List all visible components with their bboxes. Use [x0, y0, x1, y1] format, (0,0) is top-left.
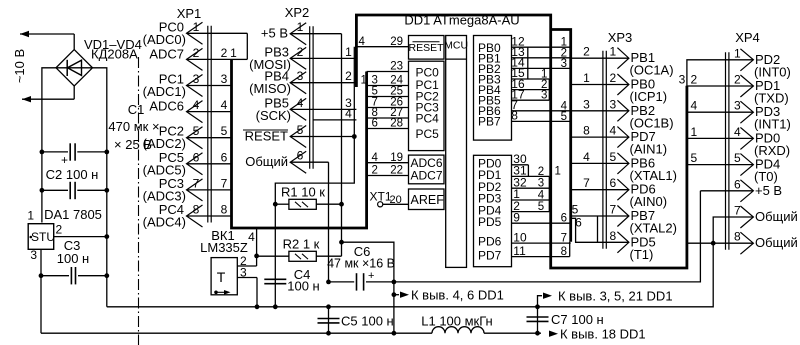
connector XP2 body — [310, 26, 313, 169]
connector XP1 pin 7 (PC3) — [143, 176, 232, 204]
DD1 PC3 pin 26 wire — [367, 97, 409, 109]
wire bus to XP4 pin 4 — [687, 125, 754, 139]
svg-text:1: 1 — [345, 45, 352, 59]
ground bus wire — [107, 243, 713, 307]
svg-text:3: 3 — [561, 58, 567, 70]
connector XP3 pin 8 (PD5) — [610, 229, 656, 262]
connector XP2 pin 4 (PB5) — [256, 95, 307, 123]
DD1 PD0 pin 30 wire — [512, 152, 529, 166]
DD1 PB4 pin 16 wire — [511, 77, 549, 91]
wire +5V down from R1 — [342, 204, 394, 333]
junction R2 left — [254, 254, 259, 259]
AC input arrow top — [20, 31, 74, 50]
svg-text:1: 1 — [297, 20, 304, 34]
junction C3 left — [39, 273, 44, 278]
wire right rail from bridge — [93, 68, 107, 307]
svg-text:47 мк ×16 В: 47 мк ×16 В — [327, 257, 395, 271]
svg-text:+: + — [61, 153, 68, 167]
wire bus to XP3 pin 1 — [571, 45, 629, 59]
svg-text:Общий: Общий — [245, 154, 288, 169]
svg-text:5: 5 — [193, 124, 200, 138]
wire XP2 reset jog — [313, 119, 356, 121]
connector XP1 pin 4 (ADC6) — [149, 98, 231, 123]
wire gnd to XP4 pin 7 — [713, 217, 753, 243]
capacitor C7 — [527, 307, 604, 333]
junction DA1 pin2 rail — [104, 234, 109, 239]
connector XP4 pin 1 (PD2) — [734, 46, 791, 79]
capacitor C6 — [327, 244, 395, 291]
resistor R2 — [257, 237, 342, 262]
svg-text:1: 1 — [193, 20, 200, 34]
svg-text:6: 6 — [221, 150, 228, 164]
DD1 PC1 pin 24 wire — [367, 75, 409, 87]
svg-text:2: 2 — [610, 71, 617, 85]
junction XP4 gnd — [711, 241, 716, 246]
svg-text:29: 29 — [390, 36, 403, 48]
svg-text:LM335Z: LM335Z — [200, 240, 248, 255]
svg-text:R1 10 к: R1 10 к — [281, 185, 325, 200]
svg-text:Т: Т — [217, 269, 226, 285]
svg-text:4: 4 — [193, 98, 200, 112]
DD1 PD1 pin 31 wire — [512, 164, 550, 178]
connector XP3 pin 3 (PB2) — [610, 97, 674, 130]
svg-text:4: 4 — [610, 124, 617, 138]
DD1 PD5 pin 9 wire — [512, 210, 571, 224]
wire bus to XP4 pin 1 — [687, 60, 754, 86]
DD1 PD3 pin 1 wire — [512, 187, 550, 201]
svg-text:С2 100 н: С2 100 н — [46, 167, 99, 182]
svg-text:3: 3 — [221, 72, 228, 86]
svg-text:3: 3 — [541, 90, 547, 102]
svg-text:DD1 ATmega8A-AU: DD1 ATmega8A-AU — [404, 13, 519, 28]
svg-text:~10 В: ~10 В — [12, 49, 27, 83]
svg-text:4: 4 — [691, 99, 698, 113]
svg-text:23: 23 — [390, 61, 403, 73]
junction R1 right — [339, 202, 344, 207]
svg-text:5: 5 — [572, 203, 579, 217]
DD1 PB7 pin 8 wire — [511, 109, 570, 123]
svg-text:20: 20 — [390, 194, 402, 206]
svg-text:PD6: PD6 — [478, 235, 502, 249]
svg-text:5: 5 — [538, 201, 544, 213]
resistor R1 — [275, 185, 341, 210]
capacitor C5 — [318, 307, 394, 333]
svg-text:7: 7 — [221, 176, 228, 190]
svg-text:2: 2 — [691, 73, 698, 87]
svg-text:19: 19 — [390, 152, 403, 164]
connector XP1 pin 3 (PC1) — [143, 72, 232, 100]
wire numbers PB6-PB7 — [561, 100, 568, 123]
junction +5V R2 tap — [339, 240, 344, 245]
connector XP1 pin 8 (PC4) — [143, 202, 232, 230]
svg-text:XT1: XT1 — [370, 190, 392, 204]
DD1 port B cell — [474, 36, 512, 141]
junction +5V supply tap — [392, 292, 397, 297]
svg-text:STU: STU — [31, 230, 55, 244]
connector XP3 pin 6 (PD6) — [610, 176, 668, 209]
test point XT1 — [370, 190, 409, 207]
svg-text:L1 100 мкГн: L1 100 мкГн — [421, 314, 493, 329]
svg-text:8: 8 — [583, 124, 590, 138]
svg-text:(T1): (T1) — [630, 247, 654, 262]
svg-text:5: 5 — [691, 151, 698, 165]
svg-text:(MISO): (MISO) — [249, 81, 291, 96]
svg-text:+: + — [368, 270, 374, 282]
wire bus to XP3 pin 5 — [571, 150, 629, 164]
wire bus to XP4 pin 5 — [687, 151, 754, 165]
svg-text:9: 9 — [513, 210, 520, 224]
DD1 PB6 pin 7 wire — [511, 98, 570, 112]
svg-text:1: 1 — [610, 45, 617, 59]
svg-text:4: 4 — [734, 125, 741, 139]
ground label К выв. 3, 5, 21 DD1 — [538, 289, 673, 307]
svg-text:ADC6: ADC6 — [149, 99, 184, 114]
svg-text:XP4: XP4 — [735, 30, 760, 45]
DD1 PB1 pin 13 wire — [511, 45, 570, 59]
group bus from XP1 to DD1 port C — [232, 59, 367, 228]
junction gnd tap — [535, 304, 540, 309]
svg-text:3: 3 — [297, 69, 304, 83]
svg-text:ADC7: ADC7 — [149, 46, 184, 61]
label К выв. 18 DD1 — [549, 327, 646, 342]
svg-text:6: 6 — [372, 118, 378, 130]
connector XP1 pin 2 (ADC7) — [149, 46, 231, 71]
capacitor C3 — [41, 238, 107, 284]
svg-text:3: 3 — [193, 72, 200, 86]
wire RESET net — [275, 47, 354, 205]
junction C6 right — [392, 280, 397, 285]
connector XP4 body — [726, 52, 729, 249]
wire XP2 pin3 MISO — [290, 82, 356, 84]
wire numbers PB0-PB2 — [561, 37, 567, 70]
svg-text:XP3: XP3 — [608, 30, 633, 45]
junction bottom C5 — [326, 331, 331, 336]
svg-text:6: 6 — [610, 176, 617, 190]
wire bus to XP3 pin 7 — [571, 203, 629, 217]
svg-text:1: 1 — [691, 125, 698, 139]
svg-text:XP2: XP2 — [285, 5, 310, 20]
DD1 RESET cell — [408, 36, 444, 60]
svg-text:4: 4 — [583, 150, 590, 164]
junction C6 left — [326, 280, 331, 285]
junction C1 left — [40, 150, 45, 155]
svg-text:5: 5 — [297, 123, 304, 137]
svg-text:10: 10 — [513, 230, 527, 244]
svg-text:К выв. 18 DD1: К выв. 18 DD1 — [560, 327, 646, 342]
svg-text:4: 4 — [297, 96, 304, 110]
svg-text:6: 6 — [575, 216, 582, 230]
svg-text:7: 7 — [583, 176, 590, 190]
svg-text:1: 1 — [27, 209, 34, 223]
svg-text:5: 5 — [610, 150, 617, 164]
DD1 PD6 pin 10 wire — [512, 230, 571, 244]
svg-text:2: 2 — [372, 165, 378, 177]
wire numbers XP2 to bus — [345, 45, 352, 121]
junction BK1 gnd — [255, 304, 260, 309]
connector XP3 pin 7 (PB7) — [610, 203, 677, 236]
svg-text:470 мк ×: 470 мк × — [108, 119, 159, 134]
svg-text:8: 8 — [561, 246, 567, 258]
svg-text:8: 8 — [734, 230, 741, 244]
svg-text:2: 2 — [345, 69, 352, 83]
junction R1 left — [273, 202, 278, 207]
svg-text:PC4: PC4 — [416, 112, 440, 126]
svg-text:4: 4 — [359, 36, 366, 48]
junction RESET XP2 — [352, 134, 357, 139]
svg-text:Общий: Общий — [755, 235, 798, 250]
wire bus to XP4 pin 2 — [687, 73, 754, 87]
svg-text:1: 1 — [583, 71, 590, 85]
connector XP4 pin 4 (PD0) — [734, 125, 790, 158]
DD1 ADC7 pin 22 wire — [367, 165, 409, 177]
svg-text:+5 В: +5 В — [261, 26, 288, 41]
svg-text:28: 28 — [390, 118, 403, 130]
connector XP4 pin 8 (Общий) — [734, 230, 798, 255]
svg-text:6: 6 — [193, 150, 200, 164]
connector XP4 pin 6 (+5 В) — [734, 177, 782, 202]
wire bus to XP3 pin 2 — [571, 71, 629, 85]
connector XP3 pin 1 (PB1) — [610, 45, 674, 78]
wire XP2 pin2 MOSI — [290, 57, 356, 59]
svg-text:(AIN1): (AIN1) — [630, 142, 668, 157]
svg-text:2: 2 — [56, 223, 63, 237]
svg-text:8: 8 — [610, 229, 617, 243]
connector XP4 pin 2 (PD1) — [734, 73, 789, 106]
svg-text:4: 4 — [221, 98, 228, 112]
svg-text:6: 6 — [734, 177, 741, 191]
screen boundary dash-dot line — [138, 57, 140, 345]
svg-text:6: 6 — [561, 213, 567, 225]
svg-text:4: 4 — [248, 230, 255, 244]
svg-text:MCU: MCU — [444, 40, 468, 52]
wire XP2 pin5 RESET — [290, 136, 354, 138]
junction C3 right — [104, 273, 109, 278]
DD1 PB0 pin 12 wire — [511, 34, 570, 48]
svg-text:(ICP1): (ICP1) — [630, 89, 668, 104]
voltage regulator DA1 7805 — [27, 207, 102, 262]
svg-text:3: 3 — [583, 97, 590, 111]
svg-text:2: 2 — [221, 46, 228, 60]
svg-text:8: 8 — [511, 109, 518, 123]
svg-text:7: 7 — [734, 204, 741, 218]
connector XP3 pin 4 (PD7) — [610, 124, 668, 157]
svg-text:К выв. 3, 5, 21 DD1: К выв. 3, 5, 21 DD1 — [558, 289, 673, 304]
wire bus to XP4 pin 3 — [687, 99, 754, 113]
wire left rail from bridge — [42, 68, 56, 223]
connector XP1 pin 1 (PC0) — [143, 19, 248, 47]
wire XP2 pin6 GND — [290, 162, 328, 282]
DD1 pin 29 RESET wire — [356, 36, 408, 48]
svg-text:7: 7 — [610, 203, 617, 217]
svg-text:(XTAL1): (XTAL1) — [630, 168, 677, 183]
DD1 MCU body — [444, 36, 468, 268]
DD1 port D cell — [474, 155, 512, 266]
wire XP2 pin1 +5V — [290, 34, 341, 205]
connector XP4 pin 3 (PD3) — [734, 99, 791, 132]
wire DA1 pin 3 — [40, 249, 42, 275]
connector XP4 pin 5 (PD4) — [734, 151, 780, 184]
svg-text:+5 В: +5 В — [755, 183, 782, 198]
svg-text:(ADC0): (ADC0) — [143, 32, 186, 47]
svg-text:RESET: RESET — [408, 42, 444, 54]
connector XP4 pin 7 (Общий) — [734, 204, 798, 229]
connector XP2 pin 1 (+5 В) — [261, 20, 306, 45]
step wire port B — [528, 47, 550, 100]
DD1 AREF cell — [409, 189, 445, 210]
group bus border around DD1 — [356, 15, 687, 268]
svg-text:1: 1 — [555, 166, 561, 178]
junction bottom +5V — [392, 331, 397, 336]
svg-text:11: 11 — [513, 244, 526, 258]
svg-text:PD5: PD5 — [478, 215, 502, 229]
DD1 PC2 pin 25 wire — [367, 86, 409, 98]
svg-text:С7 100 н: С7 100 н — [551, 312, 604, 327]
junction bottom C7 — [535, 331, 540, 336]
svg-text:С1: С1 — [128, 102, 145, 117]
wire numbers PD5-PD7 — [561, 213, 567, 258]
DD1 PD7 pin 11 wire — [512, 244, 570, 258]
DD1 PC0 pin 23 wire — [367, 61, 409, 73]
svg-text:5: 5 — [561, 111, 567, 123]
wire bus to XP3 pin 6 — [571, 176, 629, 190]
svg-text:Общий: Общий — [755, 209, 798, 224]
microcontroller DD1 ATmega8A-AU — [404, 13, 519, 28]
svg-text:8: 8 — [221, 203, 228, 217]
svg-text:100 н: 100 н — [287, 279, 319, 294]
DD1 PC4 pin 27 wire — [367, 107, 409, 119]
DD1 port C cell — [409, 61, 445, 150]
wire numbers PB3-PB5 — [541, 69, 547, 102]
junction C2 left — [40, 188, 45, 193]
inductor L1 — [421, 314, 493, 334]
svg-text:4: 4 — [538, 190, 545, 202]
svg-text:5: 5 — [734, 151, 741, 165]
DD1 ADC6 pin 19 wire — [367, 152, 409, 164]
svg-text:3: 3 — [679, 73, 686, 87]
DD1 PC5 pin 28 wire — [367, 118, 409, 130]
connector XP3 pin 2 (PB0) — [610, 71, 668, 104]
wire BK1 sense to bus (wire 4) — [248, 228, 256, 256]
svg-text:(XTAL2): (XTAL2) — [630, 221, 677, 236]
wire to bottom bus from DA1 pin3 — [40, 276, 42, 334]
wire number labels at XP1 bus — [221, 46, 238, 217]
capacitor C1 — [42, 102, 160, 167]
connector XP1 pin 6 (PC5) — [143, 150, 232, 178]
wire BK1 pin 2 — [237, 254, 256, 268]
svg-text:4: 4 — [372, 152, 379, 164]
svg-text:С5 100 н: С5 100 н — [341, 314, 394, 329]
svg-text:8: 8 — [193, 203, 200, 217]
svg-text:6: 6 — [297, 149, 304, 163]
capacitor C2 — [42, 167, 107, 199]
wire XP2 pin4 SCK — [290, 108, 356, 110]
connector XP2 pin 2 (PB3) — [249, 44, 306, 72]
svg-text:2: 2 — [193, 46, 200, 60]
bottom supply bus wire — [41, 332, 541, 334]
svg-text:5: 5 — [221, 124, 228, 138]
svg-text:4: 4 — [345, 106, 352, 120]
connector XP1 body — [208, 26, 211, 223]
wire BK1 pin 3 — [237, 266, 257, 307]
svg-text:(OC1A): (OC1A) — [630, 63, 674, 78]
svg-text:(ADC1): (ADC1) — [143, 84, 186, 99]
AC input arrow bottom — [22, 86, 74, 103]
connector XP1 pin 5 (PC2) — [143, 124, 232, 152]
connector XP2 pin 6 (Общий) — [245, 149, 306, 174]
svg-text:(ADC4): (ADC4) — [143, 215, 186, 230]
svg-text:1: 1 — [734, 46, 741, 60]
svg-text:AREF: AREF — [411, 193, 445, 207]
svg-text:1: 1 — [230, 46, 237, 60]
connector XP3 body — [603, 51, 606, 249]
connector XP2 pin 5 (RESET) — [243, 123, 306, 148]
svg-text:2: 2 — [297, 45, 304, 59]
svg-text:RESET: RESET — [245, 129, 288, 144]
svg-text:22: 22 — [390, 165, 403, 177]
svg-text:2: 2 — [734, 73, 741, 87]
svg-text:R2 1 к: R2 1 к — [283, 237, 320, 252]
DD1 PB3 pin 15 wire — [511, 66, 549, 80]
svg-text:PC5: PC5 — [416, 127, 440, 141]
wire +5V to XP4 — [394, 191, 701, 282]
svg-text:К выв. 4, 6 DD1: К выв. 4, 6 DD1 — [411, 288, 504, 303]
wire RESET to C4 — [274, 204, 276, 307]
DD1 PD2 pin 32 wire — [512, 175, 550, 189]
supply label К выв. 4, 6 DD1 — [394, 288, 504, 303]
svg-text:PB7: PB7 — [478, 115, 501, 129]
svg-text:7: 7 — [561, 233, 567, 245]
wire numbers PD1-PD4 — [538, 166, 545, 213]
wire bus to XP3 pin 4 — [571, 124, 629, 138]
wire XP1 pin1 into bus — [232, 33, 248, 59]
svg-text:ADC7: ADC7 — [411, 169, 443, 183]
svg-text:2: 2 — [538, 166, 544, 178]
svg-text:3: 3 — [240, 266, 247, 280]
connector XP2 pin 3 (PB4) — [249, 69, 306, 97]
svg-text:3: 3 — [734, 99, 741, 113]
svg-text:3: 3 — [30, 248, 37, 262]
junction C2 right — [104, 188, 109, 193]
connector XP3 pin 5 (PB6) — [610, 150, 677, 183]
svg-text:DA1 7805: DA1 7805 — [44, 207, 102, 222]
DD1 ADC cell — [409, 155, 445, 184]
wire bus to XP3 pin 3 — [571, 97, 629, 111]
svg-text:КД208А: КД208А — [91, 47, 138, 62]
junction gnd C4 — [273, 304, 278, 309]
DD1 PB2 pin 14 wire — [511, 56, 570, 70]
svg-text:PD7: PD7 — [478, 249, 502, 263]
junction C1 right — [104, 150, 109, 155]
temperature sensor BK1 LM335Z — [200, 228, 248, 295]
svg-text:(SCK): (SCK) — [256, 108, 291, 123]
svg-text:2: 2 — [583, 45, 590, 59]
step wire port D — [528, 165, 569, 257]
bridge rectifier VD1-VD4 — [56, 37, 142, 86]
group bus to XP3 — [551, 30, 571, 242]
svg-text:(OC1B): (OC1B) — [630, 115, 674, 130]
svg-text:(AIN0): (AIN0) — [630, 194, 668, 209]
DD1 PD4 pin 2 wire — [512, 199, 550, 213]
svg-text:3: 3 — [538, 178, 544, 190]
wire bus to XP3 pin 8 jog — [571, 216, 629, 243]
junction gnd C5 — [326, 304, 331, 309]
wire DA1 pin 2 output — [54, 236, 107, 238]
wire +5V to XP4 pin 6 — [700, 190, 753, 192]
svg-text:3: 3 — [610, 97, 617, 111]
DD1 PB5 pin 17 wire — [511, 87, 549, 101]
wire gnd to XP4 pin 8 — [687, 242, 754, 244]
svg-text:7: 7 — [193, 176, 200, 190]
